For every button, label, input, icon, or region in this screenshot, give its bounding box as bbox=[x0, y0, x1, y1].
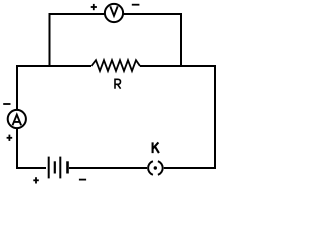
voltmeter V letter bbox=[110, 6, 117, 16]
resistor R zigzag bbox=[92, 60, 141, 71]
key K label bbox=[153, 142, 159, 153]
wire voltmeter branch (left vertical, top horizontal, right vertical) bbox=[50, 14, 182, 67]
wire bottom between battery and key bbox=[69, 167, 147, 169]
wire middle left segment bbox=[17, 66, 91, 168]
ammeter + label bbox=[7, 135, 13, 141]
key K center dot bbox=[154, 166, 157, 169]
battery + label bbox=[33, 177, 39, 183]
battery tall plate 2 (positive) bbox=[59, 157, 61, 179]
key K right arc bbox=[158, 161, 163, 175]
ammeter U2 circle bbox=[8, 110, 26, 128]
battery short plate 2 (negative) bbox=[66, 161, 69, 173]
battery - label bbox=[79, 179, 86, 181]
voltmeter - label bbox=[132, 4, 140, 6]
key K left arc bbox=[148, 161, 153, 175]
battery short plate 1 (negative) bbox=[54, 161, 56, 173]
voltmeter U1 circle bbox=[105, 4, 123, 22]
ammeter A letter bbox=[13, 115, 22, 126]
battery tall plate 1 (positive) bbox=[48, 157, 50, 179]
voltmeter + label bbox=[91, 4, 97, 10]
ammeter - label bbox=[3, 103, 10, 105]
resistor R label bbox=[115, 79, 121, 88]
wire middle right segment, right vertical, bottom right bbox=[140, 66, 215, 168]
